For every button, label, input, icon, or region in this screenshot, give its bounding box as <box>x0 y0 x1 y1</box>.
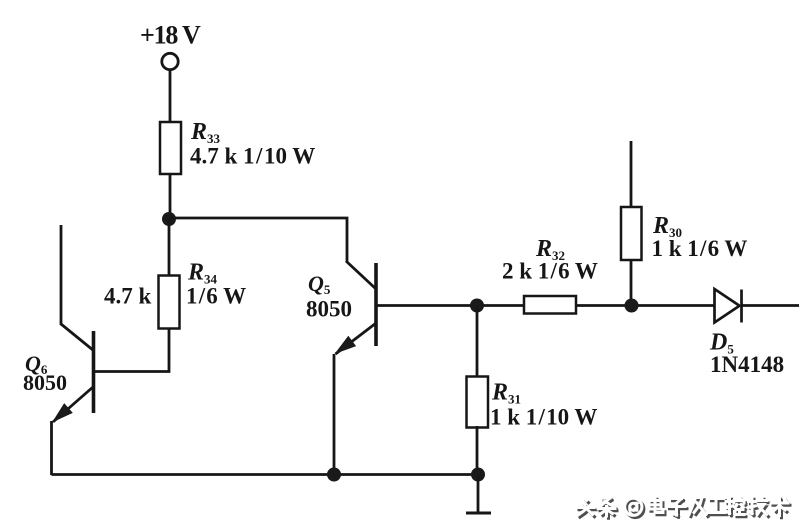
wire: main output line <box>376 304 715 307</box>
svg-text:8050: 8050 <box>23 370 67 395</box>
junction: Q5 emitter to bottom rail <box>327 468 341 482</box>
transistor Q6 <box>52 324 94 423</box>
+18V terminal circle <box>162 53 178 69</box>
junction node B <box>470 299 484 313</box>
resistor R34 <box>159 276 180 329</box>
wire: R30 to node C <box>630 259 633 306</box>
junction node C <box>625 299 639 313</box>
diode D5 <box>715 289 742 323</box>
svg-text:1N4148: 1N4148 <box>710 352 784 377</box>
node A junction dot <box>162 212 176 226</box>
svg-text:4.7 k: 4.7 k <box>104 284 152 309</box>
svg-text:1 k 1/6 W: 1 k 1/6 W <box>652 236 748 261</box>
resistor R32 <box>524 296 576 314</box>
wire: R30 top <box>630 141 633 209</box>
transistor Q5 <box>335 261 377 354</box>
wire: R31 to bottom rail <box>476 426 479 475</box>
wire: D5 cathode to output <box>742 304 799 307</box>
ground <box>466 475 491 514</box>
wire: Q5 emitter down <box>333 354 336 475</box>
watermark: 头条 @电子及工控技术 <box>577 497 790 518</box>
svg-text:4.7 k 1/10 W: 4.7 k 1/10 W <box>190 144 315 169</box>
resistor R33 <box>160 122 181 174</box>
svg-text:1/6 W: 1/6 W <box>186 284 246 309</box>
wire: node B to R31 <box>476 306 479 379</box>
junction: bottom rail to ground <box>471 468 485 482</box>
wire: node A to R34 <box>168 219 171 277</box>
wire: Q6 collector up <box>60 225 63 325</box>
wire: R33 to node A <box>169 172 172 220</box>
wire: Q6 emitter down <box>50 421 53 475</box>
resistor R31 <box>467 377 489 428</box>
wire: bottom rail <box>52 473 479 476</box>
svg-text:+18 V: +18 V <box>140 21 201 50</box>
wire: terminal to R33 <box>169 70 172 124</box>
wire: node A to Q5 collector <box>169 218 347 262</box>
wire: R34 to Q6 base <box>95 328 169 372</box>
svg-text:8050: 8050 <box>306 297 352 322</box>
svg-text:2 k 1/6 W: 2 k 1/6 W <box>502 259 598 284</box>
svg-text:1 k 1/10 W: 1 k 1/10 W <box>490 405 597 430</box>
resistor R30 <box>621 207 642 260</box>
